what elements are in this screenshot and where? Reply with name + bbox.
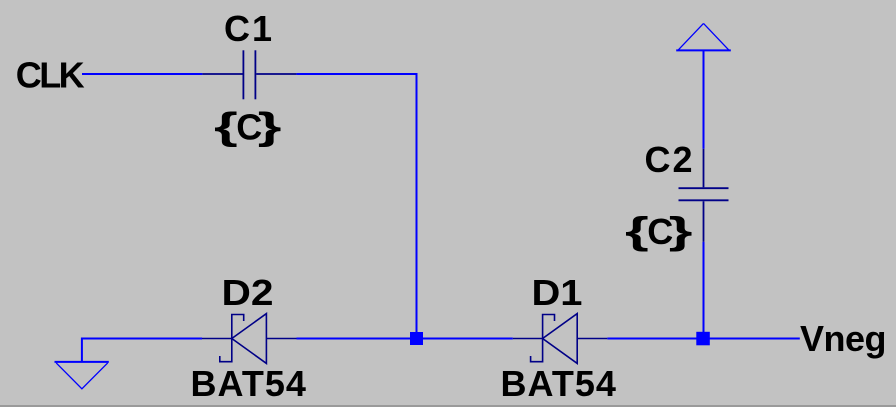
svg-text:}: } (258, 104, 282, 147)
svg-text:}: } (669, 209, 693, 252)
bottom window edge strip (0, 405, 896, 407)
wire C1 to corner and down to node A (296, 74, 416, 339)
wire D1 to Vneg through node B (607, 338, 800, 340)
capacitor C1 (202, 50, 296, 99)
svg-text:Vneg: Vneg (800, 318, 886, 359)
svg-text:CLK: CLK (16, 55, 85, 96)
svg-text:{: { (625, 209, 649, 252)
node B junction (696, 332, 710, 346)
ground (55, 362, 109, 389)
svg-text:BAT54: BAT54 (501, 363, 617, 404)
wire ground to D2 (82, 338, 202, 340)
diode D2 (202, 314, 297, 364)
diode D1 (513, 314, 608, 364)
wire D2 to D1 through node A (297, 338, 513, 340)
svg-text:BAT54: BAT54 (191, 363, 307, 404)
node A junction (410, 332, 423, 345)
svg-text:{: { (214, 104, 238, 147)
svg-text:D1: D1 (532, 272, 583, 313)
value {C} of C1 (214, 104, 282, 147)
svg-text:C2: C2 (645, 139, 695, 180)
wire ground drop (81, 338, 83, 362)
wire top flag to C2 (703, 50, 705, 148)
capacitor C2 (679, 149, 729, 242)
wire CLK to C1 (82, 73, 202, 75)
top flag triangle (676, 23, 731, 50)
value {C} of C2 (625, 209, 693, 252)
svg-text:C1: C1 (224, 8, 274, 49)
svg-text:D2: D2 (222, 272, 274, 313)
wire C2 to node B (703, 242, 705, 339)
